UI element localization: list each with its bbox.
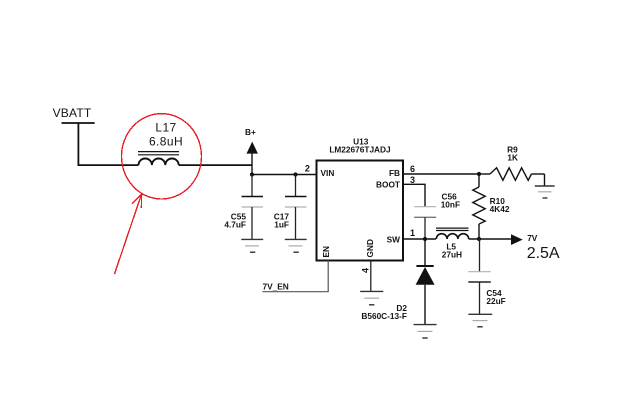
pin name BOOT xyxy=(376,179,400,189)
label C17 xyxy=(274,211,290,221)
regulator U13 body xyxy=(317,161,404,261)
wire BOOT pin 3 xyxy=(403,184,425,206)
svg-text:1K: 1K xyxy=(507,153,518,163)
label D2 xyxy=(396,303,407,313)
ground (D2) xyxy=(414,325,437,338)
svg-text:4: 4 xyxy=(360,268,370,273)
capacitor C56 xyxy=(414,207,436,239)
pin 6 xyxy=(410,164,415,174)
junction SW/C56/D2 xyxy=(423,237,427,241)
pin 2 xyxy=(305,164,310,174)
svg-text:6.8uH: 6.8uH xyxy=(149,135,183,149)
pin 4 xyxy=(360,268,370,273)
wire L17 to B+ node xyxy=(179,164,252,166)
wire bus to VIN pin 2 xyxy=(252,174,317,176)
value B560C-13-F xyxy=(361,311,407,321)
diode D2 xyxy=(416,239,435,325)
label C54 xyxy=(486,288,502,298)
annotation 2.5A xyxy=(527,245,560,262)
svg-text:6: 6 xyxy=(410,164,415,174)
svg-text:VBATT: VBATT xyxy=(53,106,92,120)
value 10nF xyxy=(441,200,460,210)
label U13 xyxy=(353,137,369,147)
value 1K xyxy=(507,153,518,163)
pin name FB xyxy=(389,168,400,178)
svg-text:4K42: 4K42 xyxy=(490,204,510,214)
wire SW pin 1 xyxy=(403,238,436,240)
label L5 xyxy=(446,242,456,252)
svg-text:B+: B+ xyxy=(245,127,256,137)
capacitor C17 xyxy=(285,175,307,240)
junction at C17 xyxy=(293,172,297,176)
inductor L17 xyxy=(138,152,179,166)
net label 7V_EN xyxy=(263,282,289,292)
junction at B+/C55 xyxy=(250,172,254,176)
pin name SW xyxy=(387,234,401,244)
power flag B+ xyxy=(245,127,258,175)
svg-text:4.7uF: 4.7uF xyxy=(224,219,246,229)
pin name EN (rotated) xyxy=(321,246,331,258)
value LM22676TJADJ xyxy=(329,144,391,154)
svg-text:10nF: 10nF xyxy=(441,200,460,210)
svg-text:3: 3 xyxy=(410,175,415,185)
wire VBATT down and right to L17 xyxy=(78,123,138,165)
svg-text:1uF: 1uF xyxy=(274,219,289,229)
svg-text:7V_EN: 7V_EN xyxy=(263,282,289,292)
ground (C54) xyxy=(468,314,492,327)
label R10 xyxy=(490,196,506,206)
svg-text:2.5A: 2.5A xyxy=(527,245,560,262)
pin 1 xyxy=(410,228,415,238)
value 4K42 xyxy=(490,204,510,214)
value 22uF xyxy=(486,296,505,306)
value 6.8uH xyxy=(149,135,183,149)
pin name VIN xyxy=(321,168,335,178)
port VBATT bar xyxy=(62,122,95,124)
svg-text:FB: FB xyxy=(389,168,400,178)
svg-text:1: 1 xyxy=(410,228,415,238)
svg-text:VIN: VIN xyxy=(321,168,335,178)
svg-text:22uF: 22uF xyxy=(486,296,505,306)
label L17 xyxy=(155,121,176,135)
wire L5 to output xyxy=(469,238,511,240)
wire EN pin to 7V_EN xyxy=(263,261,329,292)
output arrow 7V xyxy=(511,234,523,245)
ground (C17) xyxy=(285,239,307,252)
capacitor C55 xyxy=(242,175,264,240)
red highlight ellipse around L17 xyxy=(122,114,202,199)
svg-text:B560C-13-F: B560C-13-F xyxy=(361,311,407,321)
ground (R9) xyxy=(535,186,555,198)
svg-text:EN: EN xyxy=(321,246,331,258)
red annotation arrow xyxy=(114,194,141,274)
value 1uF xyxy=(274,219,289,229)
net label VBATT xyxy=(53,106,92,120)
capacitor C54 xyxy=(468,239,491,314)
ground (C55) xyxy=(241,239,263,252)
junction FB/R9/R10 xyxy=(477,172,481,176)
svg-text:GND: GND xyxy=(365,239,375,257)
svg-text:L17: L17 xyxy=(155,121,176,135)
resistor R10 xyxy=(473,174,485,239)
value 27uH xyxy=(442,250,462,260)
net label 7V xyxy=(527,233,538,243)
svg-text:27uH: 27uH xyxy=(442,250,462,260)
junction L5/R10/C54 xyxy=(477,237,481,241)
svg-text:7V: 7V xyxy=(527,233,538,243)
value 4.7uF xyxy=(224,219,246,229)
wire FB pin 6 xyxy=(403,173,479,175)
svg-text:2: 2 xyxy=(305,164,310,174)
label C56 xyxy=(442,191,458,201)
label R9 xyxy=(507,145,518,155)
svg-text:BOOT: BOOT xyxy=(376,179,400,189)
svg-text:LM22676TJADJ: LM22676TJADJ xyxy=(329,144,391,154)
wire GND pin to ground xyxy=(370,261,372,292)
resistor R9 xyxy=(479,168,545,181)
pin 3 xyxy=(410,175,415,185)
pin name GND (rotated) xyxy=(365,239,375,257)
label C55 xyxy=(231,211,247,221)
ground (U13 GND) xyxy=(360,291,383,304)
inductor L5 xyxy=(436,228,469,239)
svg-text:SW: SW xyxy=(387,234,401,244)
wire R9 to ground xyxy=(544,174,546,186)
